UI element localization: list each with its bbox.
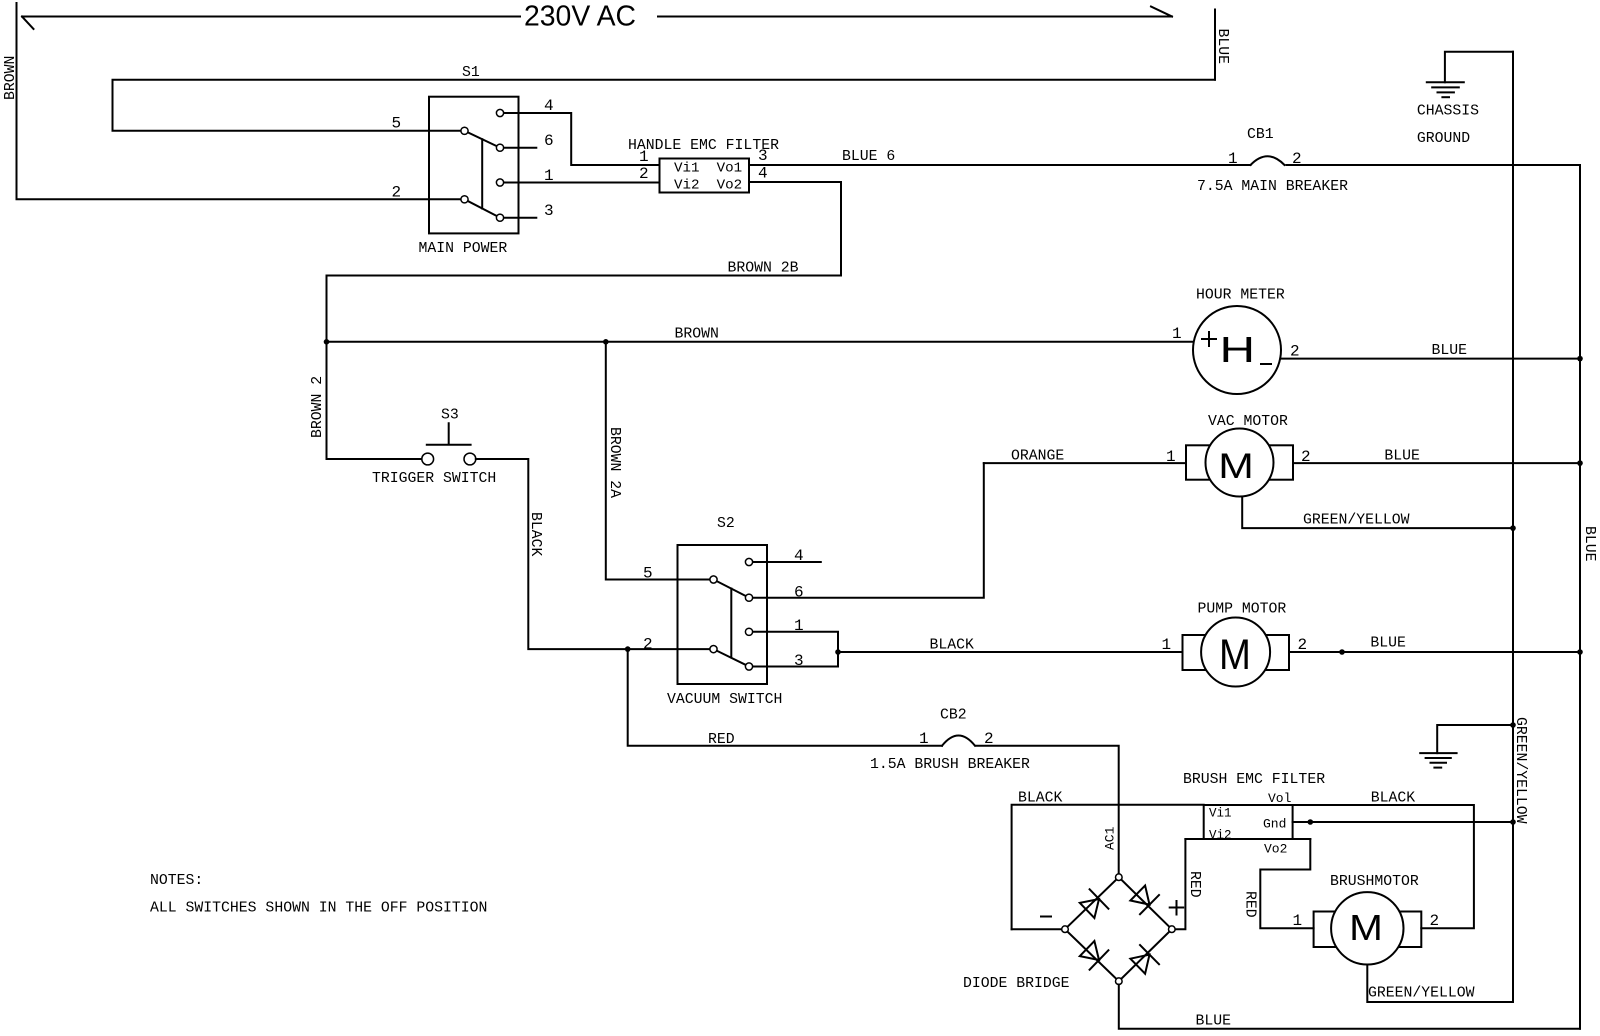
label BLACK (rotated, trigger drop) [527, 512, 543, 557]
arrowhead right [1151, 7, 1172, 17]
svg-text:ALL SWITCHES SHOWN IN THE OFF: ALL SWITCHES SHOWN IN THE OFF POSITION [150, 901, 487, 917]
ground chassis 2 symbol [1420, 753, 1456, 768]
svg-text:AC1: AC1 [1103, 826, 1118, 850]
wire Gnd to GY rail [1293, 821, 1513, 823]
svg-text:Gnd: Gnd [1263, 817, 1286, 832]
svg-text:1: 1 [1228, 150, 1238, 168]
svg-text:RED: RED [708, 732, 735, 748]
svg-text:1: 1 [1162, 636, 1172, 654]
svg-text:MAIN POWER: MAIN POWER [419, 241, 508, 257]
wire stub S1 pin 3 [504, 217, 536, 219]
svg-text:GREEN/YELLOW: GREEN/YELLOW [1512, 717, 1528, 824]
label Vi2 Vo2 [674, 178, 742, 194]
svg-text:1.5A BRUSH BREAKER: 1.5A BRUSH BREAKER [870, 757, 1030, 773]
label MAIN POWER [419, 241, 508, 257]
label 2 (CB1 pin 2) [1292, 150, 1302, 168]
pin S1-6 [496, 144, 503, 151]
filter U1 HANDLE EMC body [660, 159, 750, 193]
wire CB2 to diode bridge AC1 [976, 746, 1119, 874]
wire BROWN feeder (left vertical + pin 2 run) [17, 3, 460, 199]
label Vo2 (brush filter) [1264, 842, 1287, 857]
wire vac motor GREEN/YELLOW [1242, 497, 1513, 529]
label 7.5A MAIN BREAKER [1197, 179, 1348, 195]
node junction GY rail (vac motor) [1510, 525, 1516, 531]
label 2 (brushmotor pin 2) [1430, 912, 1440, 930]
svg-text:BROWN: BROWN [675, 327, 719, 343]
svg-text:VACUUM SWITCH: VACUUM SWITCH [667, 692, 782, 708]
label S2 [717, 516, 735, 532]
label Gnd (brush filter) [1263, 817, 1286, 832]
label BLUE (hour meter) [1432, 343, 1468, 359]
label RED [708, 732, 735, 748]
label BLUE (pump motor) [1370, 636, 1406, 652]
svg-text:BLUE: BLUE [1581, 526, 1597, 562]
node bridge plus right [1169, 926, 1176, 933]
svg-text:1: 1 [1172, 325, 1182, 343]
svg-text:6: 6 [794, 584, 804, 602]
switch S2 linkage [730, 589, 732, 658]
label RED (rotated, to brushmotor) [1242, 891, 1258, 918]
node junction on Gnd wire [1308, 819, 1314, 825]
wire Vo1 BLACK to brushmotor pin 2 [1293, 805, 1474, 928]
switch S1 linkage [481, 139, 483, 208]
label BLACK (pump feed) [930, 638, 975, 654]
node junction BROWN 2A [603, 339, 609, 345]
wire S3 to S2 pin 2 (BLACK) [476, 459, 710, 649]
svg-text:Vi2 Vo2: Vi2 Vo2 [674, 178, 742, 194]
svg-text:HOUR METER: HOUR METER [1196, 288, 1285, 304]
svg-text:H: H [1220, 330, 1256, 370]
label Vol (brush filter) [1268, 791, 1292, 806]
switch S1 lever lower [465, 199, 501, 217]
svg-text:ORANGE: ORANGE [1011, 449, 1064, 465]
label DIODE BRIDGE [963, 976, 1070, 992]
node junction BLUE rail (vac motor) [1577, 460, 1583, 466]
label 3 (S2 pin 3) [794, 652, 804, 670]
svg-text:1: 1 [544, 167, 554, 185]
svg-text:2: 2 [639, 165, 649, 183]
wire Vo2 RED to brushmotor pin 1 [1260, 839, 1313, 928]
wire S2 pin 6 up to ORANGE [753, 463, 984, 598]
wire Vi2 bottom bus [1185, 838, 1310, 840]
svg-text:S3: S3 [441, 408, 459, 424]
motor M1 VAC circle [1206, 429, 1274, 497]
svg-text:1: 1 [919, 730, 929, 748]
wire S1 pin 4 to filter Vi1 [504, 113, 659, 165]
pin S1-2 [461, 196, 468, 203]
svg-text:GROUND: GROUND [1417, 131, 1470, 147]
label GREEN/YELLOW (brushmotor) [1368, 986, 1475, 1002]
svg-text:M: M [1218, 448, 1254, 487]
node junction GY rail (Gnd) [1510, 819, 1516, 825]
svg-text:4: 4 [794, 547, 804, 565]
label GROUND [1417, 131, 1470, 147]
pin S3 right contact [464, 453, 476, 465]
wire bridge bottom BLUE return [1119, 985, 1580, 1029]
svg-text:CHASSIS: CHASSIS [1417, 104, 1479, 120]
label 1 (CB1 pin 1) [1228, 150, 1238, 168]
wire S1 feed (pin 5 run) [113, 80, 1216, 131]
wire S2 pin 3 jumper [753, 652, 838, 667]
wire pump motor to BLUE rail [1289, 651, 1580, 653]
motor M3 BRUSH circle [1331, 892, 1403, 964]
label CHASSIS [1417, 104, 1479, 120]
label 2 (S1 pin 2) [392, 184, 402, 202]
switch S3 actuator [427, 423, 471, 445]
svg-text:BLUE: BLUE [1370, 636, 1406, 652]
svg-text:Vol: Vol [1268, 791, 1292, 806]
svg-text:CB1: CB1 [1247, 127, 1274, 143]
svg-text:6: 6 [544, 132, 554, 150]
svg-text:GREEN/YELLOW: GREEN/YELLOW [1303, 513, 1410, 529]
label TRIGGER SWITCH [372, 471, 496, 487]
svg-text:BLUE: BLUE [1214, 29, 1230, 65]
motor M2 PUMP terminals [1183, 635, 1290, 670]
svg-text:BLUE 6: BLUE 6 [842, 149, 895, 165]
svg-text:BLUE: BLUE [1196, 1014, 1232, 1030]
label Vi1 Vo1 [674, 161, 742, 177]
label 3 (S1 pin 3) [544, 202, 554, 220]
svg-text:BLUE: BLUE [1384, 449, 1420, 465]
svg-text:S2: S2 [717, 516, 735, 532]
svg-text:Vo2: Vo2 [1264, 842, 1287, 857]
svg-text:3: 3 [758, 147, 768, 165]
switch S1 lever upper [465, 131, 501, 148]
wire BLUE drop at top right [1214, 10, 1216, 80]
label BROWN (rotated) [3, 56, 19, 100]
label 4 (S1 pin 4) [544, 97, 554, 115]
label 1 (filter pin 1) [639, 148, 649, 166]
label H (hour meter) [1220, 330, 1256, 370]
label GREEN/YELLOW (rotated, rail) [1512, 717, 1528, 824]
svg-text:3: 3 [544, 202, 554, 220]
wire GREEN/YELLOW rail [1512, 52, 1514, 1002]
svg-text:HANDLE EMC FILTER: HANDLE EMC FILTER [628, 138, 779, 154]
svg-text:BLACK: BLACK [1018, 791, 1063, 807]
label BRUSHMOTOR [1330, 874, 1419, 890]
diode D3 (left-bottom) [1080, 941, 1109, 970]
label PUMP MOTOR [1198, 602, 1287, 618]
wire stub S1 pin 6 [504, 147, 536, 149]
svg-text:NOTES:: NOTES: [150, 873, 203, 889]
label + (hour meter) [1202, 332, 1216, 346]
wire brushmotor GREEN/YELLOW [1367, 965, 1513, 1003]
svg-text:4: 4 [544, 97, 554, 115]
svg-text:VAC MOTOR: VAC MOTOR [1208, 414, 1288, 430]
wire CB1 to right BLUE rail [1287, 164, 1581, 166]
label BLUE (bottom return) [1196, 1014, 1232, 1030]
label 6 (S2 pin 6) [794, 584, 804, 602]
diode D1 (left-top) [1080, 889, 1109, 918]
svg-text:CB2: CB2 [940, 708, 967, 724]
svg-text:4: 4 [758, 165, 768, 183]
svg-text:BLACK: BLACK [1371, 791, 1416, 807]
wire 230V AC supply line (left segment) [22, 16, 520, 18]
svg-text:S1: S1 [462, 65, 480, 81]
node junction pump BLACK [835, 649, 841, 655]
label 6 (S1 pin 6) [544, 132, 554, 150]
label 1 (vac motor pin 1) [1166, 448, 1176, 466]
node junction BLUE rail (hour meter) [1577, 356, 1583, 362]
breaker CB2 arc [942, 735, 975, 745]
svg-text:BROWN 2A: BROWN 2A [606, 427, 622, 498]
node junction BLUE rail (pump motor) [1577, 649, 1583, 655]
svg-text:1: 1 [794, 617, 804, 635]
pin S1-4 [496, 109, 503, 116]
label HANDLE EMC FILTER [628, 138, 779, 154]
svg-text:Vi1 Vo1: Vi1 Vo1 [674, 161, 742, 177]
label ALL SWITCHES SHOWN IN THE OFF POSITION [150, 901, 487, 917]
svg-text:1: 1 [1166, 448, 1176, 466]
diode D4 (bottom-right) [1130, 945, 1159, 974]
node junction RED tap [625, 646, 631, 652]
svg-text:M: M [1219, 630, 1251, 679]
wire chassis ground 1 connection [1445, 52, 1513, 83]
label S3 [441, 408, 459, 424]
label GREEN/YELLOW (vac motor) [1303, 513, 1410, 529]
label VAC MOTOR [1208, 414, 1288, 430]
diode bridge frame [1065, 877, 1172, 981]
node bridge AC top [1116, 874, 1123, 881]
label + (bridge) [1170, 901, 1184, 915]
label 4 (filter pin 4) [758, 165, 768, 183]
label - (bridge) [1041, 916, 1051, 918]
node junction BROWN 2 [324, 339, 330, 345]
svg-text:Vi2: Vi2 [1209, 829, 1232, 843]
label 1 (hour meter pin 1) [1172, 325, 1182, 343]
motor M2 PUMP circle [1201, 618, 1270, 687]
motor M1 VAC terminals [1186, 445, 1293, 479]
svg-text:1: 1 [639, 148, 649, 166]
switch S2 lever lower [714, 649, 750, 666]
svg-text:M: M [1349, 908, 1383, 948]
label S1 [462, 65, 480, 81]
svg-text:BROWN 2: BROWN 2 [310, 376, 326, 438]
wire stub S2 pin 4 [753, 561, 821, 563]
svg-text:PUMP MOTOR: PUMP MOTOR [1198, 602, 1287, 618]
label 1.5A BRUSH BREAKER [870, 757, 1030, 773]
arrowhead left [22, 17, 34, 30]
label 2 (filter pin 2) [639, 165, 649, 183]
pin S1-5 [461, 127, 468, 134]
diode D2 (top-right) [1130, 886, 1159, 915]
svg-text:2: 2 [392, 184, 402, 202]
node junction on pump BLUE wire [1339, 649, 1345, 655]
label 1 (pump motor pin 1) [1162, 636, 1172, 654]
label ORANGE [1011, 449, 1064, 465]
svg-text:BROWN: BROWN [3, 56, 19, 100]
label BLUE (rotated, top right) [1214, 29, 1230, 65]
label BROWN [675, 327, 719, 343]
pin S1-3 [496, 214, 503, 221]
label - (hour meter) [1261, 363, 1271, 365]
label 5 (S1 pin 5) [392, 115, 402, 133]
label 2 (CB2 pin 2) [984, 730, 994, 748]
label 2 (pump motor pin 2) [1298, 636, 1308, 654]
label BLUE (rotated, rail) [1581, 526, 1597, 562]
svg-text:BLACK: BLACK [527, 512, 543, 557]
wire BROWN trunk to hour meter [327, 341, 1194, 343]
svg-text:BRUSHMOTOR: BRUSHMOTOR [1330, 874, 1419, 890]
node bridge minus left [1062, 926, 1069, 933]
label BLUE 6 [842, 149, 895, 165]
pin S2-1 [745, 628, 752, 635]
label M (vac motor) [1218, 448, 1254, 487]
svg-text:TRIGGER SWITCH: TRIGGER SWITCH [372, 471, 496, 487]
pin S1-1 [496, 179, 503, 186]
switch S2 lever upper [714, 580, 750, 598]
svg-text:BLACK: BLACK [930, 638, 975, 654]
label BLUE (vac motor) [1384, 449, 1420, 465]
svg-text:GREEN/YELLOW: GREEN/YELLOW [1368, 986, 1475, 1002]
svg-text:BRUSH EMC FILTER: BRUSH EMC FILTER [1183, 772, 1325, 788]
wire BLACK to pump motor [838, 651, 1183, 653]
label 4 (S2 pin 4) [794, 547, 804, 565]
label BROWN 2 (rotated) [310, 376, 326, 438]
label Vi2 (brush filter) [1209, 829, 1232, 843]
svg-text:BLUE: BLUE [1432, 343, 1468, 359]
pin S3 left contact [422, 453, 434, 465]
wire S1 pin 1 to filter Vi2 [504, 182, 659, 184]
breaker CB1 arc [1251, 156, 1285, 165]
label 1 (S1 pin 1) [544, 167, 554, 185]
svg-text:Vi1: Vi1 [1209, 807, 1232, 821]
label 2 (hour meter pin 2) [1290, 343, 1300, 361]
wire BLUE rail [1579, 165, 1581, 1029]
svg-text:5: 5 [643, 565, 653, 583]
wire RED from junction to CB2 [628, 649, 942, 746]
label VACUUM SWITCH [667, 692, 782, 708]
svg-text:2: 2 [643, 636, 653, 654]
svg-text:DIODE BRIDGE: DIODE BRIDGE [963, 976, 1070, 992]
switch S2 body [678, 545, 768, 684]
motor M3 BRUSH terminals [1314, 912, 1422, 948]
label M (pump motor) [1219, 630, 1251, 679]
label BROWN 2A (rotated) [606, 427, 622, 498]
label 1 (S2 pin 1) [794, 617, 804, 635]
wire 230V AC supply line (right segment) [658, 16, 1172, 18]
label AC1 (rotated) [1103, 826, 1118, 850]
wire hour meter to BLUE rail [1280, 358, 1580, 360]
wire BLACK diode bridge minus feed [1012, 805, 1204, 929]
wire vac motor to BLUE rail [1293, 462, 1580, 464]
label M (brushmotor) [1349, 908, 1383, 948]
label CB1 [1247, 127, 1274, 143]
node bridge AC bottom [1116, 978, 1123, 985]
svg-text:7.5A MAIN BREAKER: 7.5A MAIN BREAKER [1197, 179, 1348, 195]
label BRUSH EMC FILTER [1183, 772, 1325, 788]
svg-text:RED: RED [1242, 891, 1258, 918]
svg-text:3: 3 [794, 652, 804, 670]
svg-text:2: 2 [1430, 912, 1440, 930]
label 2 (S2 pin 2) [643, 636, 653, 654]
svg-text:BROWN 2B: BROWN 2B [728, 261, 799, 277]
label CB2 [940, 708, 967, 724]
ground chassis 1 symbol [1427, 82, 1464, 97]
label HOUR METER [1196, 288, 1285, 304]
label BLACK (brushmotor) [1371, 791, 1416, 807]
label 3 (filter pin 3) [758, 147, 768, 165]
pin S2-3 [745, 663, 752, 670]
wire RED diode plus to Vi2 [1175, 839, 1185, 929]
label NOTES: [150, 873, 203, 889]
label BLACK (bridge feed) [1018, 791, 1063, 807]
label 1 (brushmotor pin 1) [1293, 912, 1303, 930]
svg-text:5: 5 [392, 115, 402, 133]
label 2 (vac motor pin 2) [1301, 448, 1311, 466]
label 1 (CB2 pin 1) [919, 730, 929, 748]
wire S2 pin 1 jumper [753, 632, 838, 652]
label 5 (S2 pin 5) [643, 565, 653, 583]
wire BROWN 2A drop to S2 pin 5 [606, 342, 710, 580]
pin S2-6 [745, 594, 752, 601]
switch S1 body [429, 97, 519, 234]
label Vi1 (brush filter) [1209, 807, 1232, 821]
node junction GY rail (chassis ground 2) [1510, 722, 1516, 728]
label RED (rotated, bridge to filter) [1186, 871, 1202, 898]
label 230V AC [524, 1, 636, 33]
wire filter Vo1 to CB1 (BLUE 6) [749, 164, 1251, 166]
pin S2-4 [745, 558, 752, 565]
pin S2-2 [710, 646, 717, 653]
wire ORANGE to vac motor [984, 462, 1186, 464]
svg-text:RED: RED [1186, 871, 1202, 898]
wire filter Vo2 BROWN 2B [327, 182, 842, 459]
svg-text:1: 1 [1293, 912, 1303, 930]
wire chassis ground 2 connection [1437, 725, 1513, 753]
filter U2 BRUSH EMC body [1204, 805, 1293, 839]
wire bridge left arm [1012, 928, 1062, 930]
wire into S3 left contact [327, 458, 422, 460]
svg-text:230V AC: 230V AC [524, 1, 636, 33]
meter hour-meter circle [1193, 306, 1281, 394]
label BROWN 2B [728, 261, 799, 277]
pin S2-5 [710, 576, 717, 583]
